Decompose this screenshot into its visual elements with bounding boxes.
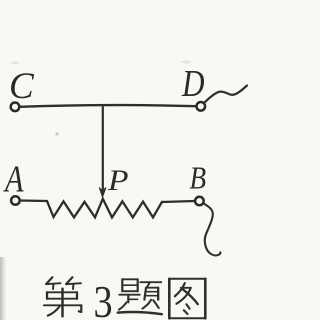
caption character TU (图) [169, 279, 205, 319]
terminal A [11, 196, 20, 205]
svg-text:C: C [9, 66, 35, 107]
caption character TI (题) [118, 279, 162, 314]
faint speck [55, 132, 58, 135]
svg-text:D: D [181, 62, 204, 105]
resistor AB zigzag with wiper contact P [47, 199, 162, 218]
terminal C [11, 103, 20, 112]
wire B curly lead [204, 204, 221, 256]
wire wiper arrow shaft [102, 107, 104, 189]
faint smudge right-top [181, 61, 191, 64]
svg-text:3: 3 [94, 278, 113, 320]
svg-text:A: A [3, 158, 24, 200]
wiper arrowhead [99, 188, 106, 198]
wire B lead [162, 201, 195, 202]
terminal B [195, 197, 204, 206]
faint smudge left-top [11, 62, 19, 65]
caption character DI (第) [44, 277, 82, 316]
wire A lead [20, 199, 47, 202]
wire D curly lead [204, 86, 247, 104]
wire top CD [20, 105, 196, 107]
svg-text:P: P [107, 164, 129, 197]
svg-text:B: B [190, 162, 207, 196]
terminal D [197, 102, 206, 111]
